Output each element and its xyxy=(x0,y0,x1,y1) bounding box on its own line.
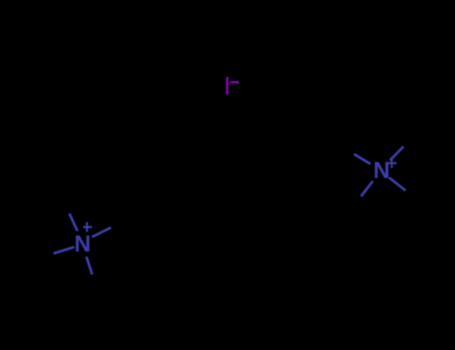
svg-text:N: N xyxy=(373,157,390,183)
svg-text:N: N xyxy=(74,231,91,257)
